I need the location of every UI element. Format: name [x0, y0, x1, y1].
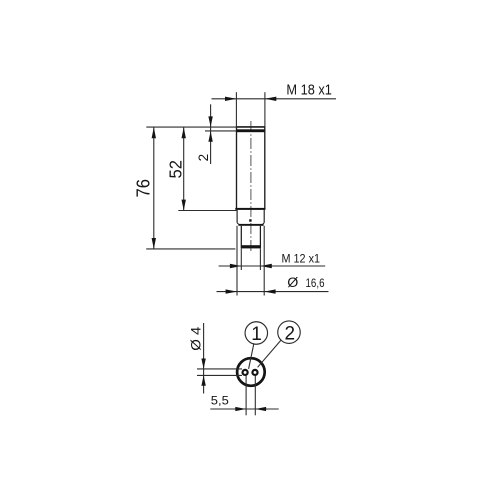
dimension line M12: [219, 265, 326, 267]
arrow 76 top: [152, 127, 156, 138]
dimension line 76: [153, 127, 155, 249]
arrow d4 bottom: [201, 375, 205, 385]
arrow M18 left: [225, 97, 236, 101]
extension line M12 left: [240, 249, 242, 271]
arrow M18 right: [265, 97, 276, 101]
barrel bottom thick edge: [235, 208, 265, 210]
arrow 52 bottom: [182, 200, 186, 211]
arrow M12 left: [230, 264, 241, 268]
extension line d4 top tangent: [197, 368, 242, 370]
barrel M18 body outline: [237, 127, 265, 210]
leader line balloon 2 to pin 2: [258, 340, 281, 367]
svg-text:5,5: 5,5: [211, 394, 229, 408]
mid section bottom thick edge: [238, 224, 263, 226]
extension line top (76/52/2 reference): [146, 126, 236, 128]
extension line d16.6 right: [263, 226, 265, 296]
extension line 5,5 left: [245, 376, 247, 416]
svg-text:2: 2: [285, 324, 296, 345]
extension line M18 right: [264, 92, 266, 126]
arrow d16.6 left: [226, 289, 237, 293]
connector M12 outline: [241, 226, 260, 249]
arrow 2 top: [208, 116, 212, 127]
arrow 52 top: [182, 127, 186, 138]
pin 2: [252, 370, 257, 375]
svg-text:1: 1: [251, 324, 262, 345]
extension line d16.6 left: [236, 226, 238, 296]
svg-text:M 18 x1: M 18 x1: [286, 81, 332, 98]
svg-text:Ø16,6: Ø16,6: [287, 275, 324, 291]
dimension line M18: [212, 98, 337, 100]
arrow 76 bottom: [152, 238, 156, 249]
svg-text:52: 52: [165, 160, 185, 179]
dimension line 52: [183, 127, 185, 210]
leader line balloon 1 to pin 1: [249, 343, 254, 369]
extension line 76 bottom: [146, 248, 235, 250]
svg-text:M 12 x1: M 12 x1: [282, 252, 321, 266]
centerline of sensor body: [250, 121, 252, 253]
arrow M12 right: [260, 264, 271, 268]
pin 1: [243, 370, 248, 375]
mid section outline: [237, 210, 264, 224]
extension line 2mm lower reference: [205, 130, 237, 132]
extension line 52 bottom: [178, 210, 237, 212]
arrow 2 bottom: [208, 131, 212, 142]
dimension line d16.6: [217, 291, 329, 293]
balloon circle 2: [278, 321, 301, 344]
svg-text:Ø 4: Ø 4: [187, 326, 203, 350]
connector bottom band: [241, 245, 260, 248]
bottom view connector face circle: [237, 358, 265, 386]
dimension line 5,5: [210, 408, 278, 410]
arrow 5,5 left: [235, 407, 246, 411]
extension line d4 bottom tangent: [197, 374, 242, 376]
LED dot: [249, 219, 251, 221]
extension line M12 right: [259, 249, 261, 271]
dimension line d4 vertical: [203, 323, 205, 394]
arrow 5,5 right: [255, 407, 266, 411]
extension line M18 left: [235, 92, 237, 126]
dimension line 2: [210, 104, 212, 164]
arrow d4 top: [201, 359, 205, 369]
svg-text:76: 76: [133, 179, 153, 198]
balloon circle 1: [245, 322, 268, 345]
arrow d16.6 right: [264, 289, 275, 293]
svg-text:2: 2: [196, 154, 211, 162]
barrel top thread band: [237, 129, 265, 132]
extension line 5,5 right: [254, 376, 256, 416]
